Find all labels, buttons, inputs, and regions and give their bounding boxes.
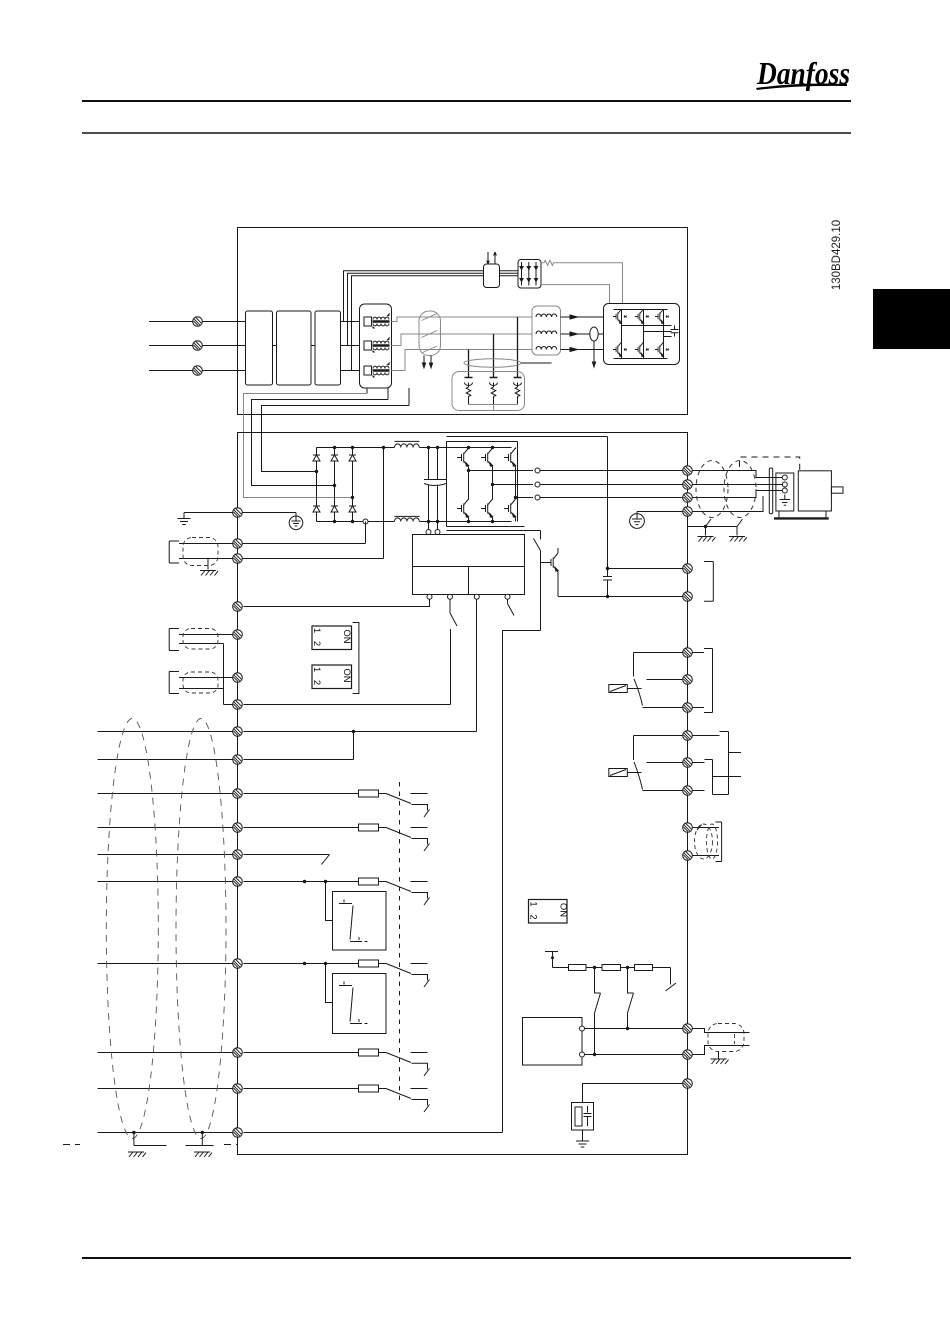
svg-text:ON: ON [558,903,569,917]
svg-text:2: 2 [311,680,322,685]
svg-text:ON: ON [341,668,352,682]
svg-text:1: 1 [311,628,322,633]
svg-text:1: 1 [528,901,539,906]
svg-text:2: 2 [311,641,322,646]
svg-text:1: 1 [311,667,322,672]
svg-text:2: 2 [528,914,539,919]
svg-text:130BD429.10: 130BD429.10 [831,220,843,290]
svg-text:ON: ON [341,629,352,643]
